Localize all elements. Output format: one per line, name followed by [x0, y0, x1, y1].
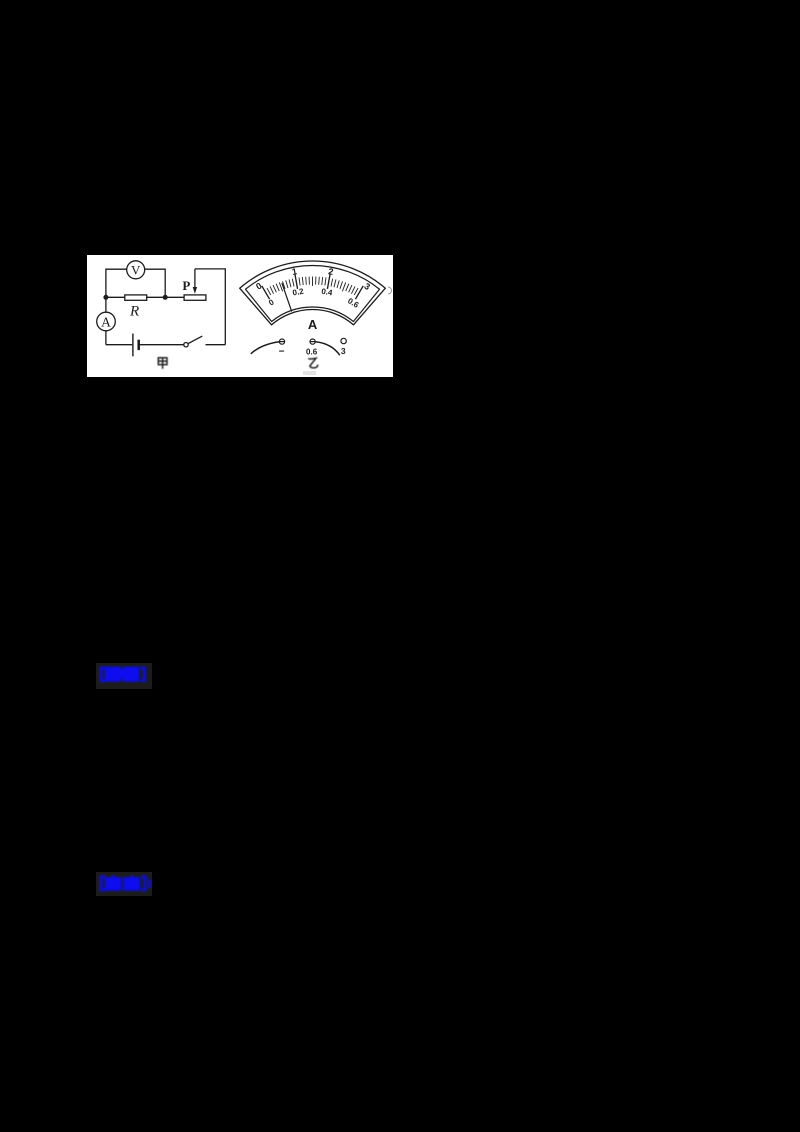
- svg-text:1: 1: [291, 266, 298, 277]
- svg-text:V: V: [131, 263, 141, 278]
- svg-text:−: −: [279, 347, 285, 358]
- svg-text:0.4: 0.4: [321, 287, 334, 298]
- svg-text:0.6: 0.6: [306, 348, 318, 357]
- svg-text:3: 3: [362, 281, 371, 292]
- svg-text:0.2: 0.2: [292, 287, 305, 298]
- svg-text:3: 3: [341, 346, 346, 356]
- svg-text:0.6: 0.6: [346, 296, 361, 310]
- svg-text:A: A: [101, 314, 111, 329]
- svg-text:2: 2: [328, 266, 335, 277]
- svg-text:0: 0: [267, 297, 276, 307]
- svg-text:R: R: [129, 304, 139, 320]
- svg-text:A: A: [308, 317, 318, 332]
- svg-text:P: P: [182, 278, 190, 293]
